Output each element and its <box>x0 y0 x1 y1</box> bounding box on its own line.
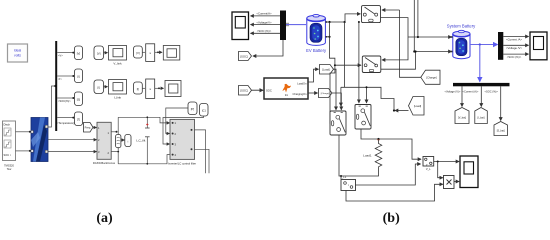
svg-text:volts: volts <box>14 54 21 58</box>
svg-text:V_link: V_link <box>113 62 122 66</box>
System battery <box>451 30 470 58</box>
bus riser wire 2 <box>417 0 419 37</box>
svg-text:<Current/A>: <Current/A> <box>256 12 272 16</box>
svg-text:Tsw: Tsw <box>7 167 12 171</box>
svg-text:Ideal: Ideal <box>14 49 22 53</box>
svg-text:ChargingOn: ChargingOn <box>293 92 308 96</box>
wire <box>155 51 162 53</box>
svg-text:<I>: <I> <box>58 77 62 81</box>
wire I_L1 loop bottom <box>346 184 443 201</box>
wire <box>121 139 124 141</box>
wire switch B out1 <box>382 37 408 60</box>
svg-text:Inverter/LC control filter: Inverter/LC control filter <box>168 161 196 165</box>
wire battery to switch1 left <box>330 65 335 123</box>
svg-text:SOC i: SOC i <box>4 153 11 157</box>
svg-text:EV Battery: EV Battery <box>306 48 327 53</box>
[Charge] from hexagon <box>421 70 440 84</box>
wire multiply to scope <box>454 181 459 183</box>
switch block 1 (mid) <box>330 111 346 135</box>
wire <box>142 87 145 89</box>
svg-text:[I]: [I] <box>98 86 101 90</box>
wire bar to scope 1 <box>251 12 281 16</box>
wire into switch2 top b <box>366 87 368 103</box>
wire converter out 2 <box>48 151 97 153</box>
multiply block <box>444 176 455 189</box>
from tag C above inverter <box>200 104 209 117</box>
scope row2 right <box>165 81 181 97</box>
conversion block row1 <box>146 44 155 62</box>
wire resistor node to V_L <box>379 139 422 159</box>
svg-text:[Load]: [Load] <box>414 104 421 108</box>
goto tag I_bat <box>475 108 488 124</box>
from tag V row1 <box>94 46 104 60</box>
svg-text:<SOC (%)>: <SOC (%)> <box>507 55 522 59</box>
wire charge tag down to switch1 <box>332 93 341 110</box>
wire soc tag to bar <box>253 40 283 56</box>
wire switch1 bottom down <box>339 135 341 176</box>
wire dcdc out2 to rail <box>111 151 118 153</box>
from tag row1 col3 <box>134 46 143 58</box>
[Charge] goto tag <box>319 89 333 98</box>
wire <box>142 51 145 53</box>
MATLAB function block <box>264 78 308 99</box>
wire charge ctrl <box>400 10 421 77</box>
svg-text:[Charge]: [Charge] <box>321 92 330 95</box>
svg-text:I_link: I_link <box>114 96 122 100</box>
svg-text:[Load]: [Load] <box>322 68 330 72</box>
svg-text:[V]: [V] <box>97 52 101 56</box>
wire m to bus <box>48 86 55 127</box>
wire V_L to scope <box>434 161 459 163</box>
wire <box>155 87 164 89</box>
wire bar to scope 2 <box>251 20 281 24</box>
svg-text:(b): (b) <box>383 211 400 226</box>
I_L1 current sensor <box>341 175 356 191</box>
wire load2 to node <box>393 109 395 111</box>
LC filter rail left <box>117 117 119 134</box>
blue wire battery to bar B2 <box>470 43 498 45</box>
from tag I row2 <box>94 80 104 94</box>
wire soc to fcn <box>252 89 264 91</box>
svg-text:<Voltage /V>: <Voltage /V> <box>506 46 522 50</box>
goto tag I <box>75 69 83 83</box>
wire ChargingOn to Charge tag <box>308 92 318 94</box>
svg-text:<SOC(%)>: <SOC(%)> <box>58 99 71 103</box>
wire V_L branch to multiply <box>438 162 443 178</box>
svg-text:[Charge]: [Charge] <box>426 76 437 80</box>
wire down to switch B left <box>330 22 362 65</box>
svg-text:[V]: [V] <box>136 51 140 55</box>
wire <box>104 52 108 54</box>
capacitor branch <box>145 117 150 164</box>
switch block B <box>362 56 381 73</box>
wire hbar drop 1 <box>461 86 463 106</box>
scope B3 <box>460 156 478 188</box>
wire I_L1 out right <box>356 164 421 185</box>
resistor Load1 <box>363 139 382 172</box>
scope B2 <box>530 32 547 60</box>
svg-text:[S]: [S] <box>77 98 81 102</box>
svg-text:<V>: <V> <box>58 54 63 58</box>
bus selector bar B1 <box>280 11 286 41</box>
powergui block <box>8 44 28 62</box>
svg-text:TMS320: TMS320 <box>4 164 14 168</box>
wire tag P to inverter in2 <box>166 108 188 134</box>
wire freq to converter <box>93 127 97 129</box>
goto tag V <box>75 46 83 60</box>
wire bar to scope 3 <box>251 29 281 33</box>
wire bar to scope B2 3 <box>503 54 528 59</box>
wire riser to switch2 <box>358 22 360 103</box>
svg-text:[V_bat]: [V_bat] <box>458 117 466 120</box>
svg-text:[I_bat]: [I_bat] <box>478 117 485 120</box>
from tag P above inverter <box>188 102 197 115</box>
switch block A top <box>362 6 381 23</box>
svg-text:(a): (a) <box>96 211 113 226</box>
horizontal bus bar B3 <box>453 83 510 86</box>
wire switch2 bottom to resistor <box>361 129 379 139</box>
svg-text:[P]: [P] <box>191 107 195 111</box>
wire battery to converter 1 <box>16 131 31 133</box>
wire inverter out2 <box>195 149 210 173</box>
from tag Freq hexagon <box>84 123 94 133</box>
DC/DC buck converter block <box>93 122 116 165</box>
wire riser junction web <box>344 22 346 87</box>
blue wire down to hbar <box>479 45 481 82</box>
wire load tag down to switch1 <box>334 69 337 110</box>
svg-text:<SOC (%)>: <SOC (%)> <box>257 29 272 33</box>
svg-text:Load1: Load1 <box>363 154 372 158</box>
svg-text:[SOC]: [SOC] <box>240 55 248 59</box>
svg-text:[S_bat]: [S_bat] <box>497 130 505 133</box>
blue converter block <box>31 118 48 162</box>
wire bus tap SOC <box>57 97 74 103</box>
svg-text:SOC: SOC <box>266 88 272 92</box>
battery subsystem block <box>3 121 16 171</box>
svg-text:I_C_filt: I_C_filt <box>136 138 146 142</box>
blue wire battery to bar <box>286 23 306 26</box>
scope I_link <box>109 80 127 100</box>
[Load] goto tag <box>320 65 334 75</box>
wire bar to scope B2 1 <box>503 37 528 42</box>
svg-text:<SOC (%)>: <SOC (%)> <box>485 90 499 94</box>
wire hbar drop 2 <box>480 86 482 106</box>
wire EV battery top port right <box>325 21 345 23</box>
inductor block <box>116 135 121 148</box>
[Load] from tag 2 <box>409 97 425 116</box>
wire LoadOn to Load tag <box>308 69 319 82</box>
wire switch B out2 <box>381 52 416 70</box>
scope V_link <box>109 46 127 66</box>
goto tag Temperature <box>75 112 83 126</box>
wire bottom rail <box>118 155 169 164</box>
svg-text:<Current /A>: <Current /A> <box>506 37 522 41</box>
switch block 2 (mid) <box>355 105 371 130</box>
bus selector bar A <box>55 41 57 131</box>
conversion block row2 <box>146 79 155 98</box>
svg-text:[T]: [T] <box>77 118 80 122</box>
current sensor block <box>125 135 131 147</box>
svg-text:[I]: [I] <box>137 87 140 91</box>
wire bus tap V <box>57 52 74 58</box>
[SOC] goto tag <box>239 52 252 61</box>
[SOC] from tag 2 <box>239 86 252 96</box>
wire inverter out1 <box>195 130 206 173</box>
wire EV battery lower port <box>325 36 329 38</box>
svg-text:[SOC]: [SOC] <box>240 89 248 93</box>
EV battery <box>306 14 327 53</box>
wire to battery plus <box>408 36 452 38</box>
svg-text:<Voltage/V>: <Voltage/V> <box>256 20 272 24</box>
svg-text:Freq: Freq <box>85 126 91 130</box>
wire hbar drop 3 <box>500 86 502 120</box>
wire battery to converter 2 <box>16 150 31 152</box>
goto tag SOC <box>75 92 83 106</box>
svg-text:[C]: [C] <box>202 109 206 113</box>
svg-text:System Battery: System Battery <box>447 24 476 29</box>
scope row1 right <box>163 46 180 61</box>
svg-text:[V]: [V] <box>77 52 81 56</box>
wire dcdc out1 <box>111 131 117 133</box>
scope B1 <box>232 12 249 40</box>
svg-text:I_L1: I_L1 <box>341 175 347 179</box>
wire to switch A left <box>345 14 360 22</box>
goto tag S_bat <box>494 122 508 136</box>
svg-text:<Current (A)>: <Current (A)> <box>463 90 479 94</box>
svg-text:LoadOn: LoadOn <box>297 81 307 85</box>
inverter block <box>168 119 196 165</box>
V_L voltage sensor <box>423 157 434 172</box>
wire top rail <box>118 116 147 118</box>
wire to battery minus <box>414 51 451 53</box>
wire tag C to inverter in3 <box>163 116 204 145</box>
from tag row2 col3 <box>134 82 143 94</box>
wire top rail to inverter <box>147 117 169 123</box>
wire bus tap I <box>57 75 74 81</box>
wire <box>104 86 108 88</box>
svg-text:Disch: Disch <box>4 123 11 127</box>
wire resistor bottom <box>341 172 379 180</box>
bus riser wire 1 <box>413 0 415 52</box>
wire bar to scope B2 2 <box>503 45 528 50</box>
svg-text:<Voltage (V)>: <Voltage (V)> <box>445 90 461 94</box>
wire switch A out2 <box>381 18 409 37</box>
wire converter out 1 <box>48 139 97 141</box>
svg-text:DC/DCBuckConve: DC/DCBuckConve <box>93 161 116 165</box>
wire switch A right ctrl input <box>382 9 400 11</box>
goto tag V_bat <box>455 108 469 124</box>
wire bus tap Temperature <box>57 117 79 125</box>
svg-text:V_L: V_L <box>426 167 431 171</box>
labels under hbar <box>445 90 499 94</box>
bus bar B2 <box>498 32 503 60</box>
svg-text:[I]: [I] <box>77 75 80 79</box>
